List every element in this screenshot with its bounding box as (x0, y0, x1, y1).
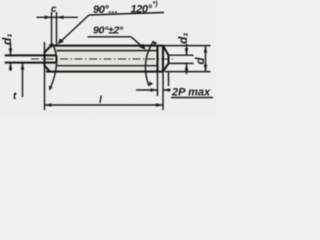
thread end line (156, 46, 158, 72)
right arc arrow top (154, 41, 158, 46)
left transition edge (44, 42, 46, 110)
svg-text:90°±2°: 90°±2° (93, 25, 124, 37)
left end face (43, 52, 45, 66)
svg-text:*): *) (153, 1, 159, 8)
dimension d arrow top (204, 46, 208, 53)
right point face (167, 55, 169, 64)
svg-text:l: l (99, 95, 102, 106)
leader arrow 90...120 (58, 38, 64, 44)
right transition edge (162, 46, 164, 72)
dimension d1 right extension top (169, 54, 194, 56)
wire centerline axis (31, 58, 173, 60)
dimension d arrow bottom (204, 65, 208, 72)
svg-text:d₁: d₁ (0, 33, 14, 45)
d1 left tick bottom (5, 62, 17, 64)
thread minor diameter line bottom (57, 65, 158, 67)
d1 left arrow top (9, 48, 13, 55)
dimension d extension bottom (165, 71, 211, 73)
dimension l extension right (162, 72, 164, 110)
leader underline 90+-2 (88, 36, 132, 38)
right point face extension (168, 72, 170, 86)
left chamfer top (45, 46, 52, 53)
d1 right arrow top (185, 48, 189, 55)
dimension 2P arrow right (163, 88, 170, 92)
dimension 2P extension left (157, 72, 159, 96)
dimension c arrow left (45, 15, 52, 19)
thread minor diameter line top (57, 50, 158, 52)
left angle arc (50, 44, 57, 91)
d1 right arrow bottom (185, 63, 189, 70)
slot upper line (6, 54, 57, 56)
left arc arrow bottom (49, 86, 53, 90)
dimension d1 right line (186, 44, 188, 74)
dimension 2P line right tail (163, 89, 171, 91)
d1 left arrow bottom (9, 63, 13, 70)
svg-text:d: d (195, 57, 207, 65)
dimension t arrow (21, 63, 25, 70)
underline 2P max (171, 97, 213, 99)
dimension d1 right extension bottom (169, 62, 194, 64)
dimension l arrow left (45, 103, 52, 107)
dimension c line (37, 16, 79, 18)
right cone top generator (163, 46, 169, 56)
screw body bottom edge (46, 71, 163, 73)
d1 left tick top (5, 54, 17, 56)
dimension c arrow right (57, 15, 64, 19)
dimension l arrow right (156, 103, 163, 107)
left chamfer bottom (45, 66, 51, 72)
dimension l line (45, 104, 164, 106)
leader 90...120 (59, 15, 90, 44)
dimension 2P arrow left (151, 88, 158, 92)
right angle arc (145, 41, 153, 86)
dimension c extension line left (51, 12, 53, 46)
right arc arrow bottom (149, 82, 153, 87)
right cone bottom generator (163, 63, 169, 71)
leader underline 90...120 (89, 13, 164, 16)
dimension d line (205, 46, 207, 72)
slot bottom (55, 55, 57, 62)
dimension t line (22, 63, 24, 97)
dimension c extension line right (56, 12, 58, 46)
dimension 2P line left tail (136, 89, 158, 91)
screw body top edge (51, 45, 164, 47)
leader 90+-2 (131, 37, 145, 49)
left arc arrow top (49, 44, 53, 48)
slot lower line (6, 62, 57, 64)
leader arrow 90+-2 (140, 44, 146, 50)
svg-text:c: c (51, 4, 57, 15)
svg-text:2P max: 2P max (171, 87, 211, 99)
svg-text:d₁: d₁ (176, 32, 190, 44)
dimension d1 left line (10, 43, 12, 71)
dimension d extension top (163, 45, 211, 47)
